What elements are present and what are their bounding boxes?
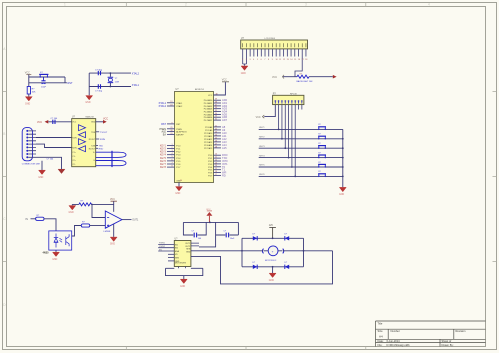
pin RP 5 (288, 100, 290, 103)
svg-text:GND: GND (241, 73, 246, 75)
switch S3 (318, 136, 326, 139)
svg-text:16: 16 (215, 171, 217, 173)
svg-text:7: 7 (171, 162, 172, 164)
pin 7 P1.6 (160, 162, 181, 166)
svg-text:7: 7 (264, 59, 265, 61)
svg-text:5: 5 (171, 156, 172, 158)
svg-text:R2IN: R2IN (72, 147, 77, 149)
junction dots (110, 72, 112, 74)
ground (opto) (52, 252, 59, 261)
svg-text:37: 37 (215, 104, 217, 106)
svg-text:12: 12 (283, 59, 285, 61)
pin 2 VDD (246, 43, 247, 64)
buffer R1 (79, 132, 86, 138)
svg-text:10uF: 10uF (41, 86, 47, 88)
wire R1IN stub (96, 139, 106, 141)
svg-text:32: 32 (215, 119, 217, 121)
pin 2 P1.1 (160, 147, 181, 151)
svg-text:OUT1: OUT1 (185, 243, 190, 245)
junction row common (342, 138, 344, 140)
pin 11 P3.1 (208, 156, 227, 160)
svg-text:MOTOR-DC: MOTOR-DC (265, 260, 277, 262)
wire gnd pins join (243, 64, 247, 66)
svg-text:1: 1 (242, 59, 243, 61)
svg-text:KEY5: KEY5 (259, 165, 265, 167)
svg-text:Revision: Revision (456, 329, 467, 333)
svg-text:PWM2: PWM2 (159, 246, 166, 248)
svg-text:C? 30p: C? 30p (95, 69, 103, 71)
pin names U2 left (72, 122, 77, 167)
switch S1 reset button (39, 74, 48, 77)
svg-text:VCC: VCC (222, 78, 227, 81)
svg-text:R1IN: R1IN (72, 137, 77, 139)
driver U3 body (174, 241, 191, 267)
svg-text:T2IN: T2IN (91, 145, 96, 147)
mcu U1 body (175, 92, 214, 183)
pin 18 VOUT (305, 43, 307, 61)
svg-text:PSEN: PSEN (176, 129, 182, 131)
svg-text:KEY3: KEY3 (259, 146, 265, 148)
power VCC (reset) (25, 72, 32, 75)
pin 6 E (261, 43, 262, 61)
svg-text:36: 36 (215, 107, 217, 109)
svg-text:6: 6 (261, 59, 262, 61)
wire top rail (29, 76, 65, 78)
wire RP pin2 to row 1 (278, 105, 280, 130)
pin 1 VSS (242, 43, 243, 64)
pin RP 1 (274, 100, 276, 103)
svg-text:13: 13 (215, 162, 217, 164)
svg-text:AD7: AD7 (222, 118, 228, 122)
svg-text:3: 3 (249, 59, 250, 61)
label R? 10K (32, 88, 36, 93)
svg-text:GND: GND (110, 244, 115, 246)
svg-text:RD: RD (222, 174, 226, 178)
pin 29 PSEN (159, 127, 182, 131)
svg-text:MAX232: MAX232 (86, 116, 95, 119)
wire DB9 shell to gnd (41, 161, 43, 170)
svg-text:15: 15 (215, 168, 217, 170)
svg-text:6-Jun-2014: 6-Jun-2014 (387, 339, 401, 343)
wire left vertical (88, 73, 90, 95)
svg-text:EA/VPP: EA/VPP (176, 133, 184, 136)
svg-text:19: 19 (170, 101, 172, 103)
svg-text:C? 104: C? 104 (47, 159, 55, 161)
wire DB9 pin4 jog (36, 144, 72, 147)
pin 35 P0.4/AD4 (204, 110, 228, 114)
pin 19 XTAL1 (159, 101, 184, 105)
svg-text:10: 10 (215, 154, 217, 156)
pin 9 RST (161, 122, 181, 126)
svg-text:+: + (272, 249, 274, 253)
pin 26 P2.5/A13 (204, 140, 227, 144)
pin 32 P0.7/AD7 (204, 118, 228, 122)
switch S4 (318, 146, 326, 149)
optocoupler U4 4N35 (49, 231, 72, 250)
wire opamp vee (113, 224, 115, 237)
svg-text:11: 11 (279, 59, 281, 61)
svg-text:Title: Title (378, 321, 383, 325)
label Y? 12M (115, 78, 119, 83)
pin 22 P2.1/A9 (205, 128, 226, 132)
svg-text:PWM1: PWM1 (159, 243, 166, 245)
svg-text:CONNECTOR DB9: CONNECTOR DB9 (22, 163, 41, 165)
pin U3 bottom stubs (179, 267, 186, 269)
op-amp U2 MAX232 body (72, 119, 96, 167)
svg-text:P0.7/AD7: P0.7/AD7 (204, 119, 213, 122)
svg-text:16: 16 (298, 59, 300, 61)
svg-text:6: 6 (171, 159, 172, 161)
junction row common (342, 176, 344, 178)
svg-text:9: 9 (171, 122, 172, 124)
svg-text:P0.2/AD2: P0.2/AD2 (204, 105, 213, 108)
pin RP 2 (278, 100, 280, 103)
svg-text:OUT1: OUT1 (132, 220, 139, 222)
wire key row 2 (259, 137, 343, 139)
capacitor C5 loop (96, 151, 126, 159)
svg-text:XTAL2: XTAL2 (176, 105, 183, 108)
wire key row 1 (259, 127, 343, 129)
svg-text:3: 3 (305, 3, 307, 7)
svg-text:34: 34 (215, 113, 217, 115)
wire cap1 to v2 (197, 222, 206, 235)
pin 17 P3.7 (208, 174, 226, 178)
svg-text:13: 13 (287, 59, 289, 61)
power 12V (bridge) (269, 225, 276, 238)
pin 3 V0 (249, 43, 250, 61)
svg-text:A15: A15 (222, 146, 227, 150)
capacitor C1 10uF (41, 77, 45, 84)
pin 4 RS (253, 43, 254, 61)
wire OUT1 to bridge (191, 250, 242, 252)
buffer T1 (79, 125, 86, 131)
svg-text:1: 1 (64, 3, 66, 7)
svg-text:GND: GND (25, 103, 30, 105)
wire bottom loop (166, 268, 203, 275)
crystal Y1 (108, 73, 114, 86)
wire bridge frame (242, 238, 304, 266)
power VCC (max232 left) (37, 120, 48, 124)
pin 1 P1.0 (160, 144, 181, 148)
pin U3 L5 (168, 258, 180, 260)
svg-text:3: 3 (171, 150, 172, 152)
buffer T2 (79, 139, 86, 145)
ground (mcu) (175, 187, 182, 196)
svg-text:4: 4 (171, 153, 172, 155)
resistor R3 (36, 215, 44, 221)
pin U3 L1 (158, 243, 178, 247)
svg-text:4: 4 (253, 59, 254, 61)
op-amp U5 LM358 (105, 211, 122, 228)
svg-text:18: 18 (305, 59, 307, 61)
svg-text:P0.4/AD4: P0.4/AD4 (204, 111, 213, 114)
svg-text:12V: 12V (269, 225, 274, 227)
pin 6 P1.5 (160, 159, 181, 163)
svg-text:P0.1/AD1: P0.1/AD1 (204, 102, 213, 105)
svg-text:RST: RST (68, 82, 73, 85)
svg-text:22: 22 (215, 128, 217, 130)
motor M1 (262, 246, 283, 256)
pin 12 D5 (283, 43, 285, 61)
wire DB9 pin3 to U2 (36, 137, 72, 139)
wire to opto (44, 219, 56, 231)
svg-text:GND: GND (180, 286, 185, 288)
ground (opamp) (110, 237, 117, 246)
pin 24 P2.3/A11 (204, 134, 227, 138)
svg-text:VCC: VCC (72, 122, 77, 124)
svg-text:11: 11 (215, 157, 217, 159)
pin 40 VCC (208, 82, 225, 97)
junction row common (342, 157, 344, 159)
wire to ground (driver) (183, 276, 185, 279)
connector J1 DB9 (22, 128, 32, 161)
svg-text:RST: RST (161, 123, 166, 126)
wire VCC to U2 pin16 (48, 121, 71, 123)
wire vcc to opamp (113, 201, 115, 212)
svg-text:IN1: IN1 (175, 244, 178, 246)
svg-text:12: 12 (215, 159, 217, 161)
wire RP pin4 to row 3 (284, 105, 286, 149)
svg-text:KEY8: KEY8 (160, 166, 167, 169)
svg-text:BACKLIGHT 10K: BACKLIGHT 10K (297, 80, 314, 83)
wire common column (342, 129, 344, 187)
pin 13 P3.3 (208, 162, 228, 166)
svg-text:14: 14 (215, 165, 217, 167)
svg-text:D:\MCU\Design.ddb: D:\MCU\Design.ddb (387, 343, 411, 347)
pin RP 4 (284, 100, 286, 103)
buffer R2 (79, 146, 86, 152)
diode D4 (285, 262, 290, 269)
pin 16 P3.6 (208, 171, 226, 175)
svg-text:KEY4: KEY4 (259, 155, 265, 157)
pin 28 P2.7/A15 (204, 146, 227, 150)
svg-text:25: 25 (215, 137, 217, 139)
wire key row 4 (259, 155, 343, 157)
switch S5 (318, 155, 326, 158)
svg-text:14: 14 (290, 59, 292, 61)
svg-text:LCD12864: LCD12864 (265, 38, 276, 40)
ground (lcd) (241, 66, 248, 75)
svg-text:VCC: VCC (103, 118, 108, 121)
svg-text:Number: Number (391, 329, 400, 333)
pin 37 P0.2/AD2 (204, 104, 228, 108)
svg-text:28: 28 (215, 146, 217, 148)
wire RP pin5 to row 4 (288, 105, 290, 158)
svg-text:GND: GND (186, 251, 191, 253)
pin 34 P0.5/AD5 (204, 112, 228, 116)
pin 30 ALE/PROG (161, 130, 187, 134)
svg-text:IN2: IN2 (175, 248, 178, 250)
pin RP 9 (301, 100, 303, 103)
pin 14 D7 (290, 43, 292, 61)
svg-text:RP10K: RP10K (290, 93, 297, 95)
wire top row (89, 72, 131, 74)
svg-text:GND: GND (52, 259, 57, 261)
pin 21 P2.0/A8 (205, 125, 226, 129)
svg-text:12M: 12M (115, 81, 119, 83)
svg-text:P2.5/A13: P2.5/A13 (204, 141, 213, 144)
svg-text:GND: GND (69, 212, 74, 214)
pin 23 P2.2/A10 (204, 131, 227, 135)
svg-text:RXD: RXD (99, 148, 104, 150)
svg-text:A4: A4 (379, 334, 383, 338)
svg-text:GND: GND (175, 193, 180, 195)
svg-text:VCC: VCC (110, 199, 115, 201)
svg-text:P2.6/A14: P2.6/A14 (204, 144, 213, 147)
svg-text:ALE/PROG: ALE/PROG (176, 131, 187, 134)
pin 15 PSB (294, 43, 296, 61)
svg-text:OUT2: OUT2 (185, 246, 190, 248)
svg-text:XTAL2: XTAL2 (159, 105, 167, 108)
wire bottom row (89, 86, 131, 88)
pin 25 P2.4/A12 (204, 137, 227, 141)
capacitor C7 104 (194, 233, 196, 238)
wire to port (309, 76, 333, 78)
svg-text:C1-: C1- (72, 156, 75, 158)
svg-text:T1IN: T1IN (91, 132, 96, 134)
TITLE BLOCK (376, 321, 486, 347)
pin 27 P2.6/A14 (204, 143, 227, 147)
svg-text:P2.4/A12: P2.4/A12 (204, 138, 213, 141)
power VCC (decap) (206, 209, 212, 222)
svg-text:GND: GND (339, 194, 344, 196)
wire VCC to RP pin1 (264, 105, 275, 117)
wire key row 6 (259, 174, 343, 176)
power VCC (max232 right) (96, 118, 109, 124)
pin U3 L4 (168, 254, 178, 256)
svg-text:Size: Size (378, 329, 384, 333)
svg-text:P0.0/AD0: P0.0/AD0 (204, 99, 213, 102)
svg-text:P2.0/A8: P2.0/A8 (205, 126, 213, 129)
svg-text:P2.3/A11: P2.3/A11 (204, 135, 213, 138)
wire RP pin8 stub (298, 105, 300, 110)
pin 8 P1.7 (160, 166, 181, 170)
wire right leg (64, 77, 66, 83)
wire OUT2 big loop (191, 251, 333, 284)
connector J2 LCD body (241, 40, 308, 49)
svg-text:KEY6: KEY6 (259, 174, 265, 176)
wire cap2 leads (216, 222, 239, 235)
svg-text:B: B (3, 132, 5, 136)
svg-text:R1IN: R1IN (100, 139, 105, 141)
svg-text:Sheet of: Sheet of (442, 339, 452, 343)
svg-text:5: 5 (257, 59, 258, 61)
svg-text:XTAL1: XTAL1 (176, 102, 183, 105)
svg-text:26: 26 (215, 140, 217, 142)
net label RXD (96, 148, 104, 150)
svg-text:R2OUT: R2OUT (89, 148, 96, 150)
svg-text:2: 2 (171, 147, 172, 149)
resistor network RP1 body (273, 95, 304, 104)
svg-text:23: 23 (215, 131, 217, 133)
svg-text:1: 1 (171, 144, 172, 146)
pin 9 D2 (272, 43, 273, 61)
svg-text:C2-: C2- (72, 164, 75, 166)
resistor R5 ref (79, 201, 92, 206)
svg-text:P2.7/A15: P2.7/A15 (204, 147, 213, 150)
wire opto emitter down (55, 250, 57, 252)
ground (keypad) (339, 187, 346, 196)
svg-text:39: 39 (215, 99, 217, 101)
pin 38 P0.1/AD1 (204, 101, 228, 105)
pin RP 7 (294, 100, 296, 103)
wire backlight (283, 76, 297, 78)
pin 10 D3 (275, 43, 277, 61)
svg-text:SEN: SEN (186, 249, 191, 251)
junction row common (342, 147, 344, 149)
pin 39 P0.0/AD0 (204, 98, 228, 102)
pin 16 NC (298, 43, 300, 61)
wire DB9 pin9 bottom (36, 157, 62, 169)
svg-text:Date:: Date: (378, 339, 384, 343)
svg-text:VCC: VCC (272, 76, 277, 79)
ground (ref divider) (69, 206, 76, 215)
wire opamp out (122, 220, 139, 222)
svg-text:20: 20 (180, 180, 182, 182)
svg-text:4: 4 (428, 3, 430, 7)
svg-text:P2.1/A9: P2.1/A9 (205, 129, 213, 132)
svg-text:P0.6/AD6: P0.6/AD6 (204, 116, 213, 119)
capacitor C8 104 (226, 233, 228, 238)
pin RP 6 (291, 100, 293, 103)
svg-text:MOTORDRV: MOTORDRV (175, 262, 187, 264)
power VCC (mcu) (222, 78, 229, 81)
pin 18 XTAL2 (159, 104, 184, 108)
wire rail left leg (183, 222, 193, 235)
pin RP 8 (298, 100, 300, 103)
pin U3 L6 (168, 261, 180, 263)
wire key row 3 (259, 146, 343, 148)
ground (reset) (25, 97, 32, 106)
pin 3 P1.2 (160, 150, 181, 154)
svg-text:R1OUT: R1OUT (89, 139, 96, 141)
pin U3 L2 (158, 246, 178, 250)
svg-text:GND: GND (91, 122, 96, 124)
svg-text:8: 8 (171, 166, 172, 168)
svg-text:17: 17 (302, 59, 304, 61)
svg-text:XTAL2: XTAL2 (132, 72, 140, 75)
pin U3 L3 (158, 249, 179, 253)
svg-text:35: 35 (215, 110, 217, 112)
svg-text:33: 33 (215, 116, 217, 118)
ground (U2) (58, 169, 65, 173)
wire RP pin3 to row 2 (281, 105, 283, 139)
svg-text:IN: IN (26, 218, 29, 221)
wire motor left (242, 250, 264, 252)
wire RST rail (29, 82, 67, 84)
pin 36 P0.3/AD3 (204, 107, 228, 111)
svg-text:P0.5/AD5: P0.5/AD5 (204, 113, 213, 116)
wire ref tap down (92, 204, 105, 217)
svg-text:2: 2 (246, 59, 247, 61)
pin 31 EA/VPP (163, 133, 184, 137)
pin 14 P3.4 (208, 165, 225, 169)
svg-text:10K: 10K (32, 92, 36, 94)
svg-text:KEY1: KEY1 (259, 127, 265, 129)
svg-text:KEY2: KEY2 (259, 137, 265, 139)
pin 12 P3.2 (208, 159, 228, 163)
svg-text:40: 40 (216, 93, 218, 95)
pin 4 P1.3 (160, 153, 181, 157)
diode D1 (253, 234, 258, 241)
power VCC (keypad) (256, 115, 265, 119)
junction row common (342, 166, 344, 168)
svg-text:29: 29 (170, 127, 172, 129)
ground (crystal) (85, 96, 92, 105)
svg-text:P2.2/A10: P2.2/A10 (204, 132, 213, 135)
pin stubs DB9 (28, 131, 36, 157)
capacitor C3 30p (98, 84, 100, 88)
